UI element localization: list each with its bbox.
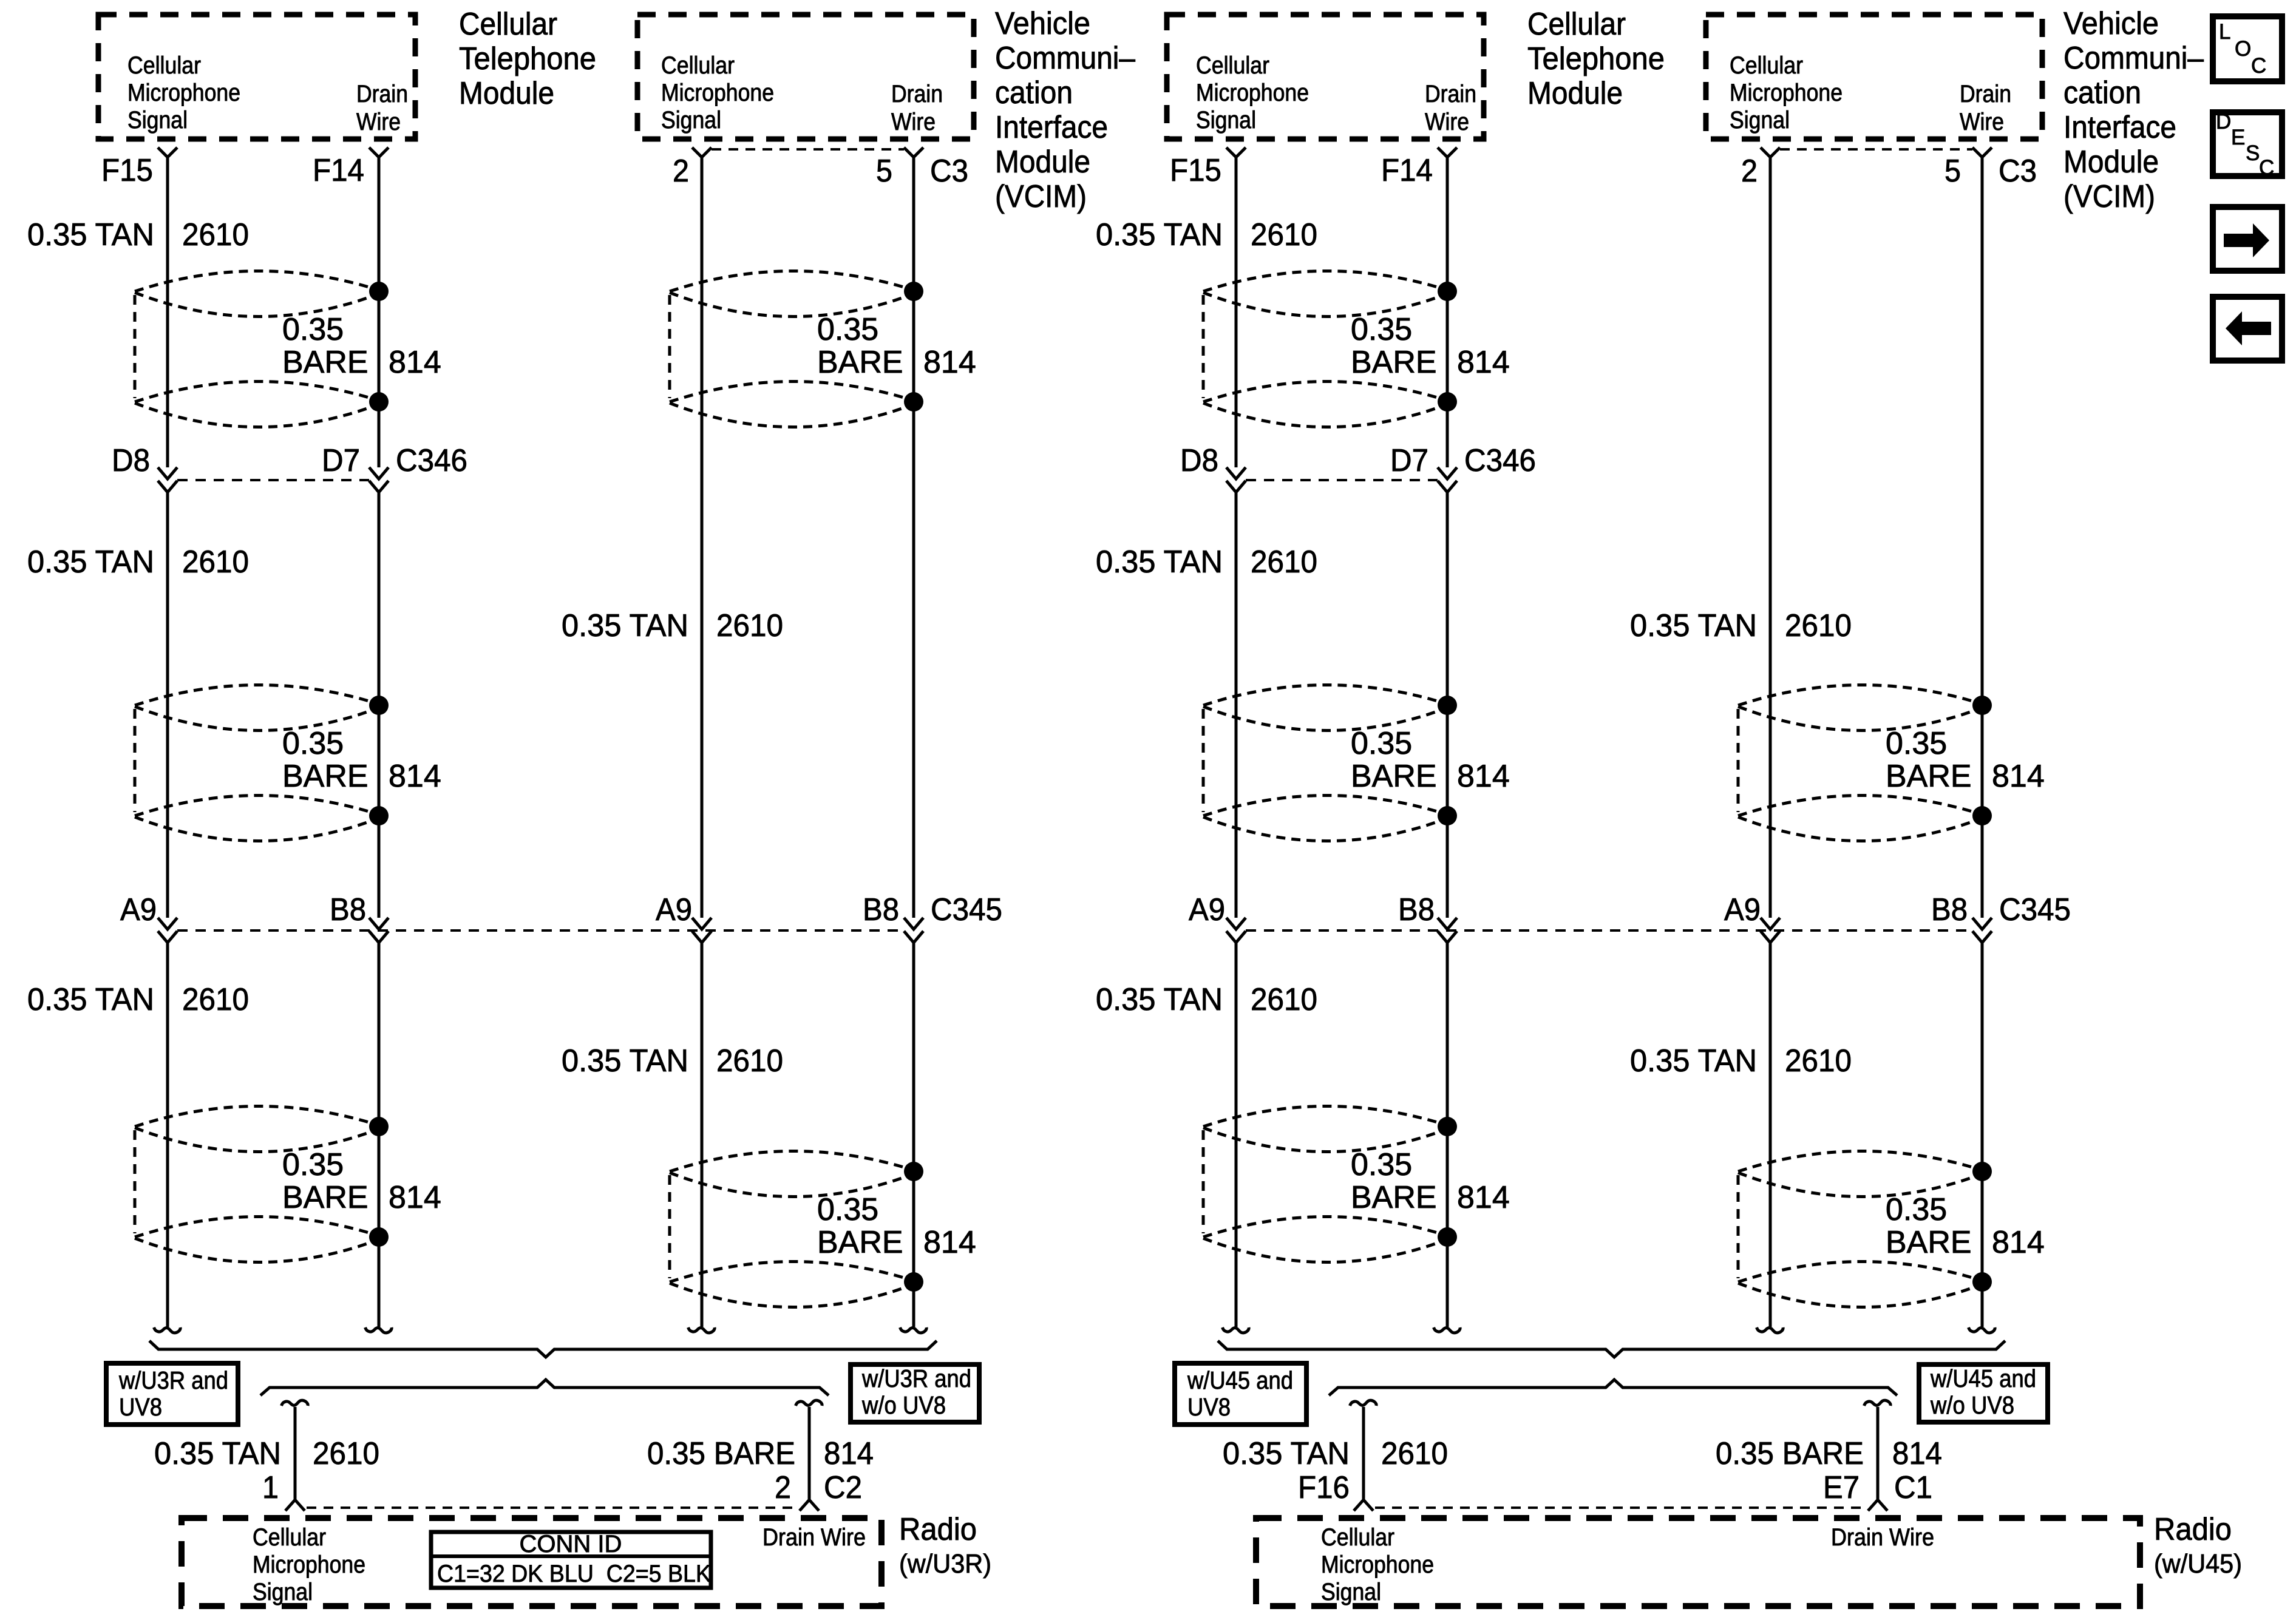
svg-text:0.35 BARE: 0.35 BARE [647,1436,795,1471]
svg-text:0.35 TAN: 0.35 TAN [562,1043,688,1079]
svg-text:Vehicle: Vehicle [995,6,1090,41]
svg-text:BARE: BARE [1351,759,1437,794]
svg-text:S: S [2246,141,2260,165]
svg-text:Module: Module [459,76,554,111]
svg-text:0.35 TAN: 0.35 TAN [1630,1043,1757,1079]
svg-text:0.35: 0.35 [1351,312,1412,347]
svg-text:0.35 TAN: 0.35 TAN [27,544,154,580]
svg-text:C1: C1 [1894,1470,1932,1505]
svg-text:Microphone: Microphone [661,80,774,106]
svg-text:F14: F14 [1381,153,1433,188]
svg-text:2610: 2610 [1251,982,1317,1017]
svg-text:(VCIM): (VCIM) [995,179,1087,214]
svg-text:B8: B8 [863,892,899,927]
svg-text:C345: C345 [931,892,1002,927]
svg-text:w/U45 and: w/U45 and [1187,1366,1293,1394]
svg-text:0.35 TAN: 0.35 TAN [1630,608,1757,643]
svg-text:0.35 TAN: 0.35 TAN [1096,982,1223,1017]
svg-text:B8: B8 [330,892,366,927]
svg-text:2610: 2610 [1785,608,1852,643]
svg-text:Microphone: Microphone [1321,1551,1434,1578]
svg-text:814: 814 [824,1436,874,1471]
svg-text:Communi–: Communi– [995,41,1135,76]
svg-text:Microphone: Microphone [1730,80,1843,106]
svg-text:Module: Module [2063,144,2159,180]
svg-text:1: 1 [262,1470,279,1505]
svg-text:2: 2 [775,1470,791,1505]
svg-text:(VCIM): (VCIM) [2063,179,2155,214]
svg-text:w/U3R and: w/U3R and [861,1364,971,1392]
svg-text:D7: D7 [322,443,360,478]
svg-text:2610: 2610 [1251,217,1317,252]
svg-text:Signal: Signal [661,107,721,134]
svg-text:w/U45 and: w/U45 and [1930,1364,2036,1392]
svg-text:Interface: Interface [995,110,1108,145]
svg-text:814: 814 [1992,759,2045,794]
svg-text:D8: D8 [1180,443,1218,478]
svg-text:Signal: Signal [1730,107,1790,134]
svg-text:Vehicle: Vehicle [2063,6,2159,41]
svg-text:(w/U3R): (w/U3R) [899,1549,991,1579]
svg-text:0.35 TAN: 0.35 TAN [1096,217,1223,252]
svg-text:2610: 2610 [182,217,249,252]
svg-text:BARE: BARE [282,1180,369,1215]
svg-text:Wire: Wire [1960,109,2004,135]
svg-text:Telephone: Telephone [1527,41,1665,76]
svg-text:L: L [2219,20,2230,44]
svg-text:O: O [2235,37,2251,61]
svg-text:2610: 2610 [1381,1436,1448,1471]
svg-text:814: 814 [389,759,441,794]
svg-text:BARE: BARE [1886,1225,1972,1260]
svg-text:0.35: 0.35 [282,726,344,761]
svg-text:F15: F15 [1170,153,1221,188]
svg-text:C1=32 DK BLU C2=5 BLK: C1=32 DK BLU C2=5 BLK [437,1561,711,1587]
svg-text:0.35: 0.35 [1351,726,1412,761]
svg-text:w/U3R and: w/U3R and [118,1366,228,1394]
svg-text:0.35 TAN: 0.35 TAN [1223,1436,1350,1471]
svg-text:A9: A9 [120,892,157,927]
svg-text:Signal: Signal [1196,107,1256,134]
svg-text:Cellular: Cellular [1321,1524,1394,1551]
svg-text:814: 814 [389,345,441,380]
svg-text:UV8: UV8 [119,1393,162,1421]
svg-text:BARE: BARE [817,345,903,380]
svg-text:2610: 2610 [1251,544,1317,580]
svg-text:2610: 2610 [313,1436,379,1471]
svg-text:CONN ID: CONN ID [520,1531,622,1557]
svg-text:Radio: Radio [2154,1512,2232,1547]
svg-text:2: 2 [673,154,689,189]
svg-text:5: 5 [876,154,892,189]
svg-text:Drain: Drain [1425,81,1476,107]
svg-text:BARE: BARE [282,345,369,380]
svg-text:2610: 2610 [1785,1043,1852,1079]
svg-text:F16: F16 [1298,1470,1350,1505]
svg-text:814: 814 [923,1225,976,1260]
svg-text:Cellular: Cellular [661,52,735,79]
svg-text:0.35: 0.35 [282,1147,344,1182]
svg-text:0.35 TAN: 0.35 TAN [27,982,154,1017]
svg-text:Signal: Signal [127,107,188,134]
svg-text:Wire: Wire [356,109,401,135]
svg-text:0.35 BARE: 0.35 BARE [1716,1436,1864,1471]
svg-text:814: 814 [923,345,976,380]
svg-text:A9: A9 [656,892,692,927]
svg-text:Cellular: Cellular [127,52,201,79]
svg-text:0.35: 0.35 [1886,1192,1947,1227]
svg-text:0.35: 0.35 [817,1192,878,1227]
svg-text:Drain: Drain [891,81,943,107]
svg-text:2: 2 [1741,154,1758,189]
svg-text:2610: 2610 [716,1043,783,1079]
svg-text:UV8: UV8 [1187,1393,1231,1421]
svg-text:Cellular: Cellular [1196,52,1269,79]
svg-text:0.35 TAN: 0.35 TAN [562,608,688,643]
svg-text:2610: 2610 [182,982,249,1017]
svg-text:2610: 2610 [716,608,783,643]
svg-text:cation: cation [995,75,1073,110]
svg-text:0.35 TAN: 0.35 TAN [27,217,154,252]
svg-text:Cellular: Cellular [1730,52,1803,79]
svg-text:C3: C3 [1999,154,2037,189]
svg-text:F14: F14 [313,153,364,188]
svg-text:Cellular: Cellular [459,7,557,42]
svg-text:C346: C346 [396,443,467,478]
svg-text:Microphone: Microphone [1196,80,1309,106]
svg-text:(w/U45): (w/U45) [2154,1549,2242,1579]
svg-text:814: 814 [1992,1225,2045,1260]
svg-text:Interface: Interface [2063,110,2176,145]
svg-text:BARE: BARE [1886,759,1972,794]
svg-text:BARE: BARE [282,759,369,794]
svg-text:0.35: 0.35 [1886,726,1947,761]
svg-text:F15: F15 [101,153,153,188]
svg-text:0.35 TAN: 0.35 TAN [1096,544,1223,580]
svg-text:Wire: Wire [1425,109,1469,135]
svg-text:Drain Wire: Drain Wire [1831,1524,1934,1551]
svg-text:Signal: Signal [1321,1579,1381,1605]
svg-text:814: 814 [1457,759,1510,794]
svg-text:Cellular: Cellular [253,1524,326,1551]
svg-text:C2: C2 [824,1470,862,1505]
svg-text:B8: B8 [1398,892,1435,927]
svg-text:A9: A9 [1724,892,1761,927]
svg-text:D8: D8 [112,443,150,478]
svg-text:E: E [2231,126,2245,149]
svg-text:E7: E7 [1823,1470,1860,1505]
svg-text:Module: Module [1527,76,1623,111]
svg-text:w/o UV8: w/o UV8 [1930,1391,2014,1419]
svg-text:A9: A9 [1189,892,1225,927]
svg-text:Module: Module [995,144,1090,180]
svg-text:Signal: Signal [253,1579,313,1605]
svg-text:cation: cation [2063,75,2141,110]
svg-text:0.35: 0.35 [282,312,344,347]
svg-text:Radio: Radio [899,1512,977,1547]
svg-text:0.35: 0.35 [1351,1147,1412,1182]
svg-text:C: C [2251,54,2266,78]
svg-text:Drain: Drain [356,81,408,107]
svg-text:C3: C3 [930,154,968,189]
svg-text:814: 814 [389,1180,441,1215]
svg-text:B8: B8 [1931,892,1968,927]
svg-text:5: 5 [1944,154,1961,189]
svg-text:w/o UV8: w/o UV8 [861,1391,946,1419]
svg-text:Cellular: Cellular [1527,7,1626,42]
svg-text:Telephone: Telephone [459,41,596,76]
svg-text:0.35: 0.35 [817,312,878,347]
svg-text:Drain: Drain [1960,81,2011,107]
svg-text:BARE: BARE [1351,1180,1437,1215]
svg-text:BARE: BARE [1351,345,1437,380]
svg-text:0.35 TAN: 0.35 TAN [154,1436,281,1471]
svg-text:C345: C345 [1999,892,2071,927]
svg-text:814: 814 [1457,1180,1510,1215]
svg-text:2610: 2610 [182,544,249,580]
svg-text:C346: C346 [1464,443,1536,478]
svg-text:C: C [2259,156,2274,180]
svg-text:Microphone: Microphone [127,80,240,106]
svg-text:Communi–: Communi– [2063,41,2204,76]
svg-text:Drain Wire: Drain Wire [763,1524,866,1551]
svg-text:814: 814 [1457,345,1510,380]
svg-text:814: 814 [1892,1436,1942,1471]
svg-text:Wire: Wire [891,109,936,135]
svg-text:BARE: BARE [817,1225,903,1260]
svg-text:Microphone: Microphone [253,1551,365,1578]
svg-text:D: D [2216,110,2231,134]
svg-text:D7: D7 [1390,443,1428,478]
